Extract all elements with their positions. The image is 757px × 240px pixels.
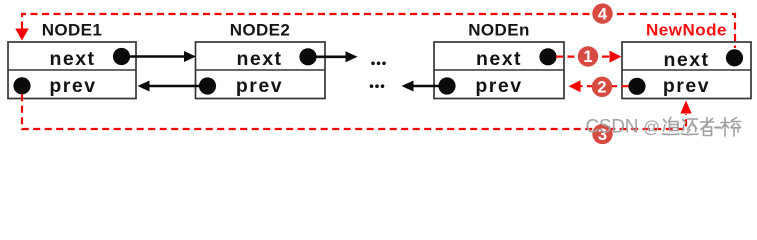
step marker 4: [592, 3, 612, 23]
svg-text:prev: prev: [49, 75, 96, 97]
svg-text:4: 4: [598, 5, 608, 23]
pointer dot NODE2 next: [299, 48, 316, 65]
field text NewNode next: [663, 49, 709, 71]
pointer dot NewNode next: [726, 49, 743, 66]
watermark hyphen: [715, 127, 720, 129]
svg-text:NODE1: NODE1: [42, 21, 103, 40]
field text NODE1 prev: [49, 75, 96, 97]
svg-text:next: next: [476, 48, 522, 70]
label NewNode: [646, 21, 727, 40]
watermark CSDN text: [586, 117, 660, 138]
wire arrow NODE1.next to NODE2: [122, 51, 197, 62]
label NODE1: [42, 21, 103, 40]
wire arrow NODE2.next to ellipsis: [308, 51, 358, 62]
step marker 3: [592, 124, 612, 144]
wire step2 dashed: NewNode.prev to NODEn: [569, 80, 629, 92]
svg-text:prev: prev: [475, 75, 522, 97]
svg-text:NODEn: NODEn: [468, 21, 530, 40]
watermark glyph qiao: [721, 118, 741, 137]
field text NODE1 next: [49, 48, 95, 70]
svg-text:NODE2: NODE2: [230, 21, 291, 40]
field text NODE2 next: [236, 48, 282, 70]
pointer dot NewNode prev: [628, 78, 645, 95]
label NODE2: [230, 21, 291, 40]
svg-text:next: next: [49, 48, 95, 70]
node NewNode box: [622, 42, 751, 99]
pointer dot NODEn prev: [438, 77, 455, 94]
pointer dot NODE1 prev: [13, 77, 30, 94]
wire step4 dashed: head to NewNode.next (top run): [22, 14, 735, 48]
watermark glyph zhu: [682, 119, 699, 135]
arrowhead step4 into NODE1 top: [15, 29, 29, 41]
svg-text:NewNode: NewNode: [646, 21, 727, 40]
svg-text:next: next: [663, 49, 709, 71]
node NODEn box: [434, 42, 564, 99]
node NODE1 box: [8, 42, 136, 99]
watermark glyph zhui: [663, 118, 680, 135]
field text NewNode prev: [663, 75, 710, 97]
node NODE2 box: [196, 42, 326, 99]
wire arrow NODE2.prev to NODE1: [138, 81, 208, 92]
watermark glyph zhe: [701, 118, 714, 136]
field text NODE2 prev: [236, 75, 283, 97]
svg-text:1: 1: [583, 48, 592, 66]
field text NODEn next: [476, 48, 522, 70]
ellipsis prev chain: [370, 84, 385, 88]
svg-text:next: next: [236, 48, 282, 70]
step marker 1: [578, 46, 598, 66]
pointer dot NODEn next: [539, 48, 556, 65]
svg-text:2: 2: [597, 79, 606, 97]
pointer dot NODE1 next: [113, 48, 130, 65]
step marker 2: [592, 77, 612, 97]
label NODEn: [468, 21, 530, 40]
svg-text:prev: prev: [663, 75, 710, 97]
pointer dot NODE2 prev: [199, 77, 216, 94]
field text NODEn prev: [475, 75, 522, 97]
wire step1 dashed: NODEn.next to NewNode: [556, 51, 622, 63]
wire arrow NODEn.prev to ellipsis: [402, 81, 448, 92]
wire step3 dashed: NODE1.prev run to NewNode.prev (bottom run): [22, 94, 686, 129]
arrowhead step3 into NewNode.prev bottom: [680, 101, 691, 114]
svg-text:CSDN @: CSDN @: [586, 117, 660, 138]
ellipsis next chain: [371, 62, 386, 66]
svg-text:prev: prev: [236, 75, 283, 97]
